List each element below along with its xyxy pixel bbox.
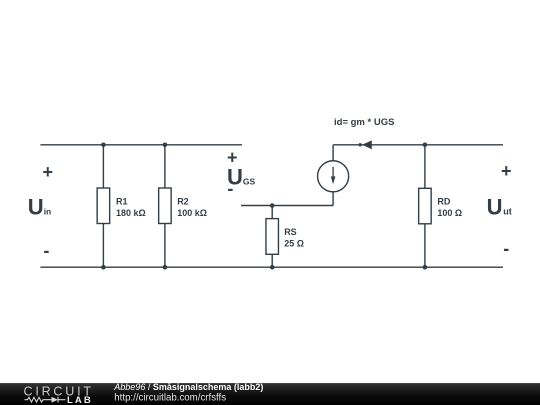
junction RD bottom xyxy=(423,265,428,270)
footer logo resistor-diode glyph xyxy=(25,397,66,403)
footer bar xyxy=(0,383,540,405)
junction RD top xyxy=(423,143,428,148)
svg-text:Abbe96 / Småsignalschema (labb: Abbe96 / Småsignalschema (labb2) xyxy=(113,382,263,392)
svg-text:LAB: LAB xyxy=(67,395,93,405)
svg-text:Uin: Uin xyxy=(28,195,51,220)
junction RS top xyxy=(270,203,275,208)
svg-text:R2: R2 xyxy=(177,197,189,207)
svg-text:Uut: Uut xyxy=(487,195,512,220)
svg-text:100 kΩ: 100 kΩ xyxy=(177,208,207,218)
svg-text:-: - xyxy=(227,179,233,199)
svg-text:-: - xyxy=(43,240,49,260)
wire source node xyxy=(241,205,333,207)
svg-text:+: + xyxy=(227,147,238,167)
svg-text:RS: RS xyxy=(284,227,297,237)
wire bottom rail xyxy=(40,266,503,268)
resistor RS xyxy=(266,219,279,255)
wire I1 bottom lead xyxy=(332,192,334,206)
svg-text:+: + xyxy=(501,161,512,181)
svg-text:100 Ω: 100 Ω xyxy=(437,208,462,218)
node UGS xyxy=(227,147,256,198)
current source I1 xyxy=(318,161,349,192)
junction R1 top xyxy=(101,143,106,148)
wire top-right drain rail xyxy=(333,144,503,146)
resistor R2 xyxy=(159,188,172,224)
wire RS branch xyxy=(271,206,273,268)
svg-text:25 Ω: 25 Ω xyxy=(284,239,304,249)
svg-text:http://circuitlab.com/crfsffs: http://circuitlab.com/crfsffs xyxy=(114,392,226,403)
svg-text:+: + xyxy=(42,162,53,182)
svg-text:-: - xyxy=(503,238,509,258)
svg-text:id= gm * UGS: id= gm * UGS xyxy=(334,117,394,128)
svg-text:R1: R1 xyxy=(116,197,128,207)
node Uin xyxy=(28,162,53,260)
node Uut xyxy=(487,161,512,258)
svg-text:180 kΩ: 180 kΩ xyxy=(116,208,146,218)
wire R2 branch xyxy=(164,145,166,267)
junction R2 top xyxy=(163,143,168,148)
svg-text:RD: RD xyxy=(437,196,450,206)
wire I1 top lead xyxy=(332,145,334,161)
resistor R1 xyxy=(97,188,110,224)
junction RS bottom xyxy=(270,265,275,270)
resistor RD xyxy=(419,188,432,224)
wire RD branch xyxy=(424,145,426,267)
wire top-left gate rail xyxy=(40,144,242,146)
wire R1 branch xyxy=(102,145,104,267)
current direction arrow id xyxy=(359,140,372,149)
junction R1 bottom xyxy=(101,265,106,270)
junction R2 bottom xyxy=(163,265,168,270)
